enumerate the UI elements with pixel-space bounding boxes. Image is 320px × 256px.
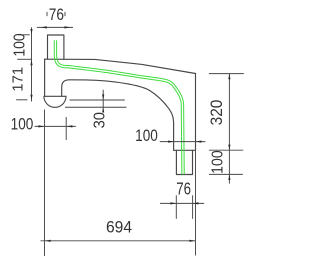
dim 30: upper ref line: [70, 99, 125, 101]
arrowhead right stack bottom (up): [228, 175, 230, 180]
right stack extension tick y73.6: [209, 73, 244, 75]
arrowhead 100col left: [168, 141, 174, 143]
arrowhead 694 right: [189, 240, 195, 242]
arrowhead 30 lower (up): [102, 108, 104, 113]
left dim stack vertical line: [31, 27, 33, 101]
arrowhead 30 upper (down): [102, 94, 104, 99]
left stack extension tick y34.8: [19, 34, 30, 36]
arrowhead 76bot left: [170, 202, 176, 204]
arrowhead left stack bottom (down): [30, 95, 32, 100]
dim 694: line: [41, 240, 196, 242]
green tendon line A: [54, 40, 182, 174]
ext line right long (694 right): [195, 151, 197, 256]
dim 30: lower ref line: [65, 106, 127, 108]
ext line left long (694 + 100): [44, 110, 46, 256]
inner contour (cove + soffit curve into column left edge): [62, 80, 174, 151]
arrowhead left stack top (down): [30, 29, 32, 34]
right stack extension tick y174.4: [209, 173, 243, 175]
dim 76 top: line: [37, 26, 73, 28]
top stub outline: [48, 35, 64, 59]
dim 76 bottom: line: [160, 202, 204, 204]
svg-text:171: 171: [11, 67, 27, 92]
dim 100 left-mid: line: [35, 125, 76, 127]
svg-text:100: 100: [209, 150, 227, 173]
arrowhead 76top left: [41, 26, 47, 28]
right dim stack vertical line: [228, 74, 230, 184]
arrowhead 100-left right: [67, 125, 73, 127]
svg-text:76: 76: [49, 6, 64, 24]
svg-text:320: 320: [209, 99, 226, 125]
arrowhead 100col right: [196, 141, 202, 143]
green tendon line B: [57, 40, 185, 174]
arrowhead left stack mid (up): [30, 60, 32, 65]
arrowhead 76bot right: [193, 202, 199, 204]
right face: [195, 74, 197, 151]
top edge (deck surface): [45, 59, 196, 73]
column bottom edge: [174, 149, 196, 151]
arrowhead 100-left left: [38, 125, 44, 127]
bottom stub outline: [176, 150, 192, 174]
drip semicircle: [44, 96, 66, 107]
svg-text:694: 694: [106, 218, 132, 237]
underside flat: [45, 95, 66, 97]
left stack extension tick y59.3: [17, 58, 32, 60]
svg-text:76: 76: [176, 180, 191, 199]
dim 76 top: text side ticks: [47, 12, 65, 16]
arrowhead 694 left: [45, 240, 51, 242]
dim 100 column: line: [160, 141, 206, 143]
dim 30: vertical line: [102, 90, 104, 111]
arrowhead right stack mid (down): [228, 145, 230, 150]
left stack extension tick y99.8: [16, 99, 27, 101]
ext line right of 100-left: [65, 117, 67, 140]
right stack extension tick y150.2: [209, 149, 243, 151]
arrowhead right stack top (up): [228, 74, 230, 79]
dim 76 bottom: right extension: [192, 195, 194, 219]
svg-text:100: 100: [135, 127, 158, 146]
svg-text:100: 100: [11, 115, 34, 134]
left face: [44, 59, 46, 96]
svg-text:30: 30: [91, 112, 109, 128]
svg-text:100: 100: [12, 33, 29, 56]
arrowhead 76top right: [64, 26, 70, 28]
dim 76 bottom: left extension: [175, 195, 177, 219]
